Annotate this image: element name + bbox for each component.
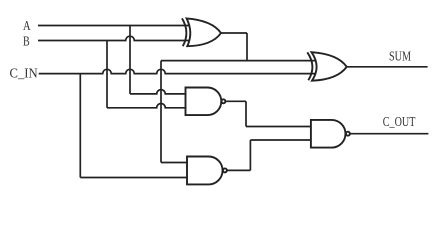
wire C_IN to XOR U2 lower input (hops at x=107,130,161) — [39, 69, 316, 73]
nand gate U4 (AxorB nand C_IN) — [187, 157, 227, 185]
wire NAND U5 output C_OUT — [350, 133, 429, 135]
svg-text:C_IN: C_IN — [10, 65, 38, 80]
xor gate U1 (A xor B) — [182, 18, 221, 46]
wire NAND U4 lower input horizontal — [80, 177, 188, 179]
wire A-xor-B bus y=60.6 into XOR U2 upper input — [161, 60, 316, 62]
wire XOR U2 output SUM — [347, 66, 428, 68]
wire B input to XOR U1 (hop over A branch at x=130) — [38, 36, 189, 40]
nand gate U3 (A nand B) — [186, 88, 226, 116]
wire vertical x=250.4 up to NAND U5 lower input — [249, 140, 251, 170]
wire XOR U1 output to elbow — [222, 32, 248, 34]
wire vertical x=161 down to NAND U4 upper input — [160, 61, 162, 163]
wire vertical x=247 from XOR U1 output down to y=60.6 bus — [246, 33, 248, 61]
wire NAND U4 output to elbow — [227, 169, 251, 171]
wire NAND U5 lower input horizontal — [250, 139, 311, 141]
wire NAND U5 upper input horizontal — [246, 126, 311, 128]
svg-text:A: A — [23, 18, 31, 33]
svg-text:C_OUT: C_OUT — [383, 114, 416, 129]
wire vertical x=246 down to NAND U5 upper input — [245, 101, 247, 126]
wire C_IN branch vertical x=80.3 down — [79, 74, 81, 178]
wire NAND U3 upper input horizontal (hop at x=161) — [130, 90, 187, 94]
wire A branch vertical x=130 down to NAND U3 input — [129, 26, 131, 94]
xor gate U2 (SUM) — [307, 52, 346, 80]
wire B branch vertical x=107 down to NAND U3 input — [106, 41, 108, 108]
wire NAND U3 output to elbow — [225, 100, 246, 102]
wire NAND U4 upper input horizontal — [161, 162, 188, 164]
svg-text:SUM: SUM — [389, 48, 411, 63]
svg-text:B: B — [23, 34, 30, 49]
nand gate U5 (C_OUT) — [311, 120, 350, 148]
wire A input to XOR U1 — [38, 25, 189, 27]
wire NAND U3 lower input horizontal (hop at x=161) — [107, 104, 187, 108]
